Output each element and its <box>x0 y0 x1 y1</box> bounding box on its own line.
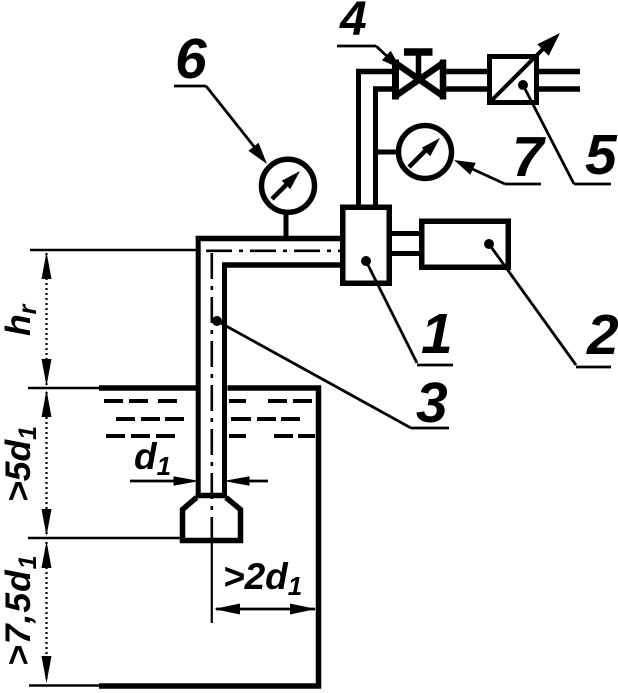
valve 4 <box>394 52 445 100</box>
svg-text:6: 6 <box>175 27 207 91</box>
dimension h_r <box>0 252 52 386</box>
svg-text:1: 1 <box>421 302 453 366</box>
label 7 <box>454 125 546 189</box>
label 4 <box>337 0 401 69</box>
label 3 <box>212 316 449 435</box>
label 1 <box>361 256 453 366</box>
pipe valve to flow meter 5 and outlet <box>446 72 580 90</box>
bell mouth inlet <box>183 496 241 541</box>
tank (right wall + bottom, open left) <box>99 386 319 686</box>
svg-text:2: 2 <box>586 303 618 367</box>
suction pipe 3: horizontal run to pump <box>196 239 343 266</box>
extension line pipe centre level <box>30 249 199 252</box>
pump 1 <box>343 207 390 283</box>
gauge 6 <box>262 159 315 238</box>
gauge 7 <box>378 126 452 179</box>
dimension d1 <box>130 436 268 486</box>
label 5 <box>523 85 618 187</box>
svg-text:5: 5 <box>585 123 618 187</box>
extension line bell bottom <box>28 537 181 540</box>
pump-motor coupling pipes <box>389 234 423 254</box>
svg-text:7: 7 <box>512 125 546 189</box>
svg-text:4: 4 <box>339 0 367 46</box>
dimension >5d1 <box>0 390 52 536</box>
flow meter 5 <box>489 33 560 103</box>
water dashes <box>104 401 315 436</box>
extension line tank bottom <box>29 684 101 687</box>
label 2 <box>484 239 618 367</box>
suction pipe 3: vertical walls <box>198 237 224 497</box>
discharge pipe pump to valve <box>359 70 376 208</box>
label 6 <box>174 27 267 164</box>
pipe centerline (dash-dot) <box>206 251 342 623</box>
dimension >2d1 <box>214 556 316 615</box>
dimension >7,5d1 <box>0 541 52 683</box>
motor 2 <box>422 221 509 267</box>
extension line water level <box>28 387 101 390</box>
svg-text:3: 3 <box>416 371 448 435</box>
water surface line <box>99 385 321 391</box>
svg-text:>7,5d1: >7,5d1 <box>0 554 42 666</box>
